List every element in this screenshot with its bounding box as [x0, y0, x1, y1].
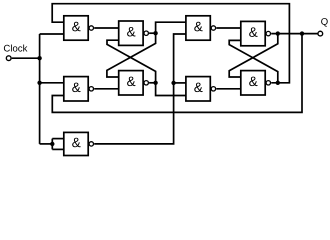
NAND gate U3 (master reset gate) [64, 77, 94, 101]
junction clock-U3 node [37, 81, 41, 85]
NAND gate U8 (slave latch bottom) [241, 71, 271, 95]
junction U2 output node [153, 31, 157, 35]
NAND gate U9 (clock inverter) [64, 132, 94, 155]
wire U4 output to node [149, 82, 156, 84]
wire node to U7 pin 2 [156, 83, 186, 96]
junction Q feedback node [300, 31, 304, 35]
NAND gate U1 (master set gate) [64, 16, 94, 40]
wire U4 cross-couple to U2 pin 2 [107, 40, 156, 83]
NAND gate U2 (master latch top) [119, 21, 149, 45]
wire U5 output to U6 pin 1 [216, 27, 241, 29]
junction U6 output node [276, 31, 280, 35]
NAND gate U4 (master latch bottom) [119, 71, 149, 95]
wire U8 output Qbar feedback top line to U1 pin 1 [52, 4, 289, 83]
wire clock to U3 pin 1 [40, 82, 64, 84]
wire U1 output to U2 pin 1 [94, 27, 119, 29]
wire U9 output inverted clock to U5 pin 2 [94, 34, 186, 144]
wire U7 output to U8 pin 2 [216, 88, 241, 90]
NAND gate U6 (slave latch top) [241, 21, 271, 45]
junction clock-U1 node [37, 56, 41, 60]
NAND gate U7 (slave reset gate) [186, 77, 216, 101]
wire U6 output Q line [271, 33, 317, 35]
junction U9 input pair [50, 142, 54, 146]
wire U2 cross-couple to U4 pin 1 [107, 33, 156, 77]
wire Q feedback to U3 pin 2 [52, 34, 302, 113]
wire U8 cross-couple to U6 pin 2 [229, 40, 278, 82]
wire clock to U9 inputs [40, 139, 64, 150]
NAND gate U5 (slave set gate) [186, 16, 216, 40]
junction U8 output node [276, 81, 280, 85]
output terminal Q [318, 18, 328, 36]
input terminal Clock [4, 45, 28, 61]
wire U6 cross-couple to U8 pin 1 [229, 34, 278, 77]
wire U2 output to node [149, 32, 156, 34]
wire clock to U1 pin 2 [40, 33, 64, 35]
junction inverted clock node [171, 81, 175, 85]
wire clock vertical bus [39, 34, 41, 144]
wire node to U5 pin 1 [156, 22, 186, 33]
wire U3 output to U4 pin 2 [94, 88, 119, 90]
wire clock input to junction [12, 57, 40, 59]
wire inverted clock to U7 pin 1 [174, 82, 186, 84]
junction U4 output node [153, 81, 157, 85]
